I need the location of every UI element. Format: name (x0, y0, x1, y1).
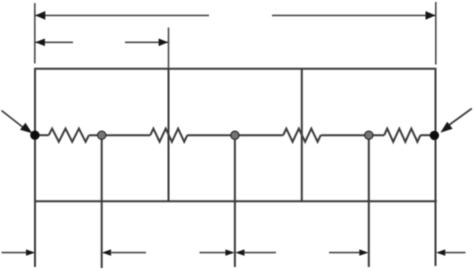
node C junction dot (tap 2) (231, 131, 239, 139)
resistor R3 (283, 129, 321, 142)
wire: node B vertical line (101, 135, 103, 268)
wire: horizontal wire segment node A to R1 (35, 134, 49, 136)
node D junction dot (tap 3) (365, 131, 373, 139)
wire: bottom dimension outside arrow at node E line with tail (436, 249, 445, 255)
wire: bottom dimension outside arrow at node A line (2, 252, 27, 254)
wire: bottom dimension segment with arrowhead at node D line (329, 252, 360, 254)
wire: top dimension line B left segment with arrowhead (35, 41, 73, 43)
wire: right terminal pointer arrow (diagonal) (447, 109, 472, 127)
wire: bottom dimension arrowhead right of node C line with tail (235, 249, 244, 255)
wire: box right edge / node E vertical line (435, 69, 437, 266)
wire: R1 to R2 through node B (89, 134, 150, 136)
wire: box top edge (34, 68, 437, 70)
wire: top dimension line B right segment with arrowhead (125, 41, 169, 43)
wire: R3 to R4 through node D (321, 134, 385, 136)
wire: box divider 1 crossing resistor R2 (168, 69, 170, 202)
wire: box divider 2 crossing resistor R3 (301, 69, 303, 202)
resistor R2 (150, 129, 187, 142)
wire: R2 to R3 through node C (187, 134, 283, 136)
wire: left extension line (34, 3, 36, 64)
wire: top dimension line A left segment with arrowhead at left extension line (35, 14, 209, 16)
wire: node C vertical line (234, 135, 236, 267)
node A junction dot (left terminal) (30, 131, 39, 140)
wire: left terminal pointer arrow (diagonal) (2, 111, 25, 129)
wire: box bottom edge (34, 200, 437, 202)
resistor R4 (384, 129, 420, 142)
node B junction dot (tap 1) (98, 131, 106, 139)
wire: R4 to node E (420, 134, 435, 136)
resistor R1 (49, 129, 89, 142)
wire: right extension line (435, 2, 437, 65)
wire: node D vertical line (368, 135, 370, 267)
node E junction dot (right terminal) (430, 131, 439, 140)
wire: box left edge / node A vertical line (34, 69, 36, 267)
wire: middle extension line above box (168, 28, 170, 70)
wire: bottom dimension segment B-C with arrowhead at node C line (200, 252, 227, 254)
wire: top dimension line A right segment with arrowhead at right extension line (272, 14, 436, 16)
wire: bottom dimension outside arrow at node B line with tail (102, 249, 111, 255)
